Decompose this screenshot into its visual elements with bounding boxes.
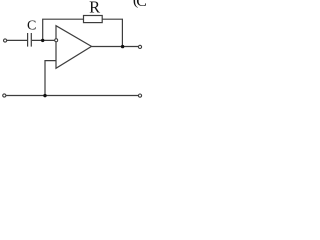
svg-text:C: C (136, 0, 146, 10)
svg-text:C: C (27, 18, 36, 33)
svg-text:R: R (89, 0, 100, 17)
